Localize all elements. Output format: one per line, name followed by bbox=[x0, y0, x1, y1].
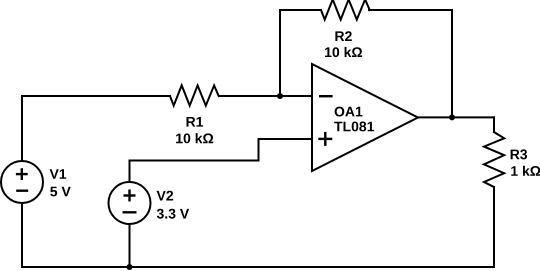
wire V2 minus to bottom rail bbox=[129, 224, 131, 267]
op-amp noninverting input plus symbol bbox=[318, 132, 332, 146]
V2 minus symbol bbox=[123, 211, 137, 213]
resistor R1 bbox=[170, 85, 219, 105]
wire V1 minus to bottom rail bbox=[21, 203, 23, 267]
op-amp OA1 label bbox=[335, 107, 363, 117]
R2 value 10 kOhm bbox=[325, 47, 362, 57]
junction node at inverting input bbox=[277, 93, 283, 99]
wire top input from V1 node to R1 bbox=[22, 95, 170, 97]
R3 value 1 kOhm bbox=[511, 166, 540, 176]
op-amp inverting input minus symbol bbox=[319, 95, 333, 97]
junction node at op-amp output bbox=[449, 114, 455, 120]
wire feedback vertical left bbox=[279, 10, 281, 96]
voltage source V2 circle bbox=[109, 182, 151, 224]
V2 plus symbol bbox=[124, 190, 136, 202]
junction node V2 bottom rail bbox=[127, 264, 133, 270]
wire feedback vertical right to output node bbox=[451, 10, 453, 117]
wire step up to noninverting level bbox=[258, 139, 260, 161]
resistor R2 bbox=[321, 0, 370, 20]
wire V2 plus up bbox=[129, 161, 131, 183]
resistor R1 label bbox=[187, 117, 204, 127]
OA1 part number TL081 bbox=[334, 122, 374, 132]
wire bottom rail bbox=[22, 266, 494, 268]
wire R3 top lead bbox=[493, 117, 495, 132]
wire R1 to op-amp inverting input bbox=[219, 95, 311, 97]
op-amp OA1 triangle bbox=[312, 64, 418, 171]
wire feedback top to R2 bbox=[280, 9, 321, 11]
resistor R3 label bbox=[511, 149, 527, 159]
wire R2 to right corner bbox=[369, 9, 452, 11]
V1 minus symbol bbox=[16, 189, 28, 191]
wire left loop vertical top (node to V1 plus) bbox=[21, 96, 23, 161]
wire right vertical R3 bottom to rail bbox=[493, 187, 495, 267]
wire op-amp output to R3 top bbox=[418, 116, 494, 118]
source V2 label bbox=[157, 191, 174, 201]
source V1 label bbox=[50, 169, 67, 179]
R1 value 10 kOhm bbox=[176, 133, 213, 143]
resistor R3 bbox=[484, 132, 504, 187]
wire to op-amp noninverting input bbox=[259, 138, 312, 140]
wire V2 horizontal run bbox=[130, 160, 259, 162]
resistor R2 label bbox=[335, 31, 351, 41]
V2 value 3.3 V bbox=[157, 209, 189, 219]
V1 plus symbol bbox=[16, 168, 28, 180]
V1 value 5 V bbox=[50, 187, 70, 197]
voltage source V1 circle bbox=[1, 161, 43, 203]
